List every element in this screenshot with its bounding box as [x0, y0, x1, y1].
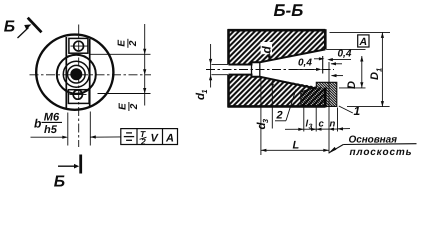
svg-text:c: c [319, 119, 325, 130]
svg-text:Б-Б: Б-Б [274, 1, 304, 20]
svg-text:d: d [259, 46, 273, 54]
svg-text:b: b [34, 117, 41, 131]
svg-text:2: 2 [128, 40, 139, 47]
svg-text:1: 1 [375, 68, 384, 72]
svg-text:0,4: 0,4 [338, 49, 352, 60]
svg-text:А: А [165, 133, 174, 145]
svg-text:h5: h5 [44, 124, 58, 136]
svg-text:E: E [116, 40, 127, 47]
svg-text:2: 2 [276, 110, 283, 122]
svg-text:E: E [117, 103, 128, 110]
svg-text:1: 1 [354, 104, 361, 118]
svg-text:L: L [293, 140, 300, 152]
svg-text:D: D [346, 81, 358, 89]
svg-text:Б: Б [4, 18, 15, 35]
svg-text:3: 3 [309, 124, 313, 131]
svg-text:плоскость: плоскость [350, 147, 412, 158]
svg-text:2: 2 [129, 103, 140, 110]
svg-text:А: А [359, 36, 368, 48]
svg-text:Б: Б [54, 173, 65, 190]
svg-text:1: 1 [200, 89, 209, 93]
svg-text:М6: М6 [44, 111, 60, 123]
svg-text:D: D [369, 72, 381, 80]
svg-text:n: n [330, 119, 336, 130]
svg-text:0,4: 0,4 [298, 58, 312, 69]
